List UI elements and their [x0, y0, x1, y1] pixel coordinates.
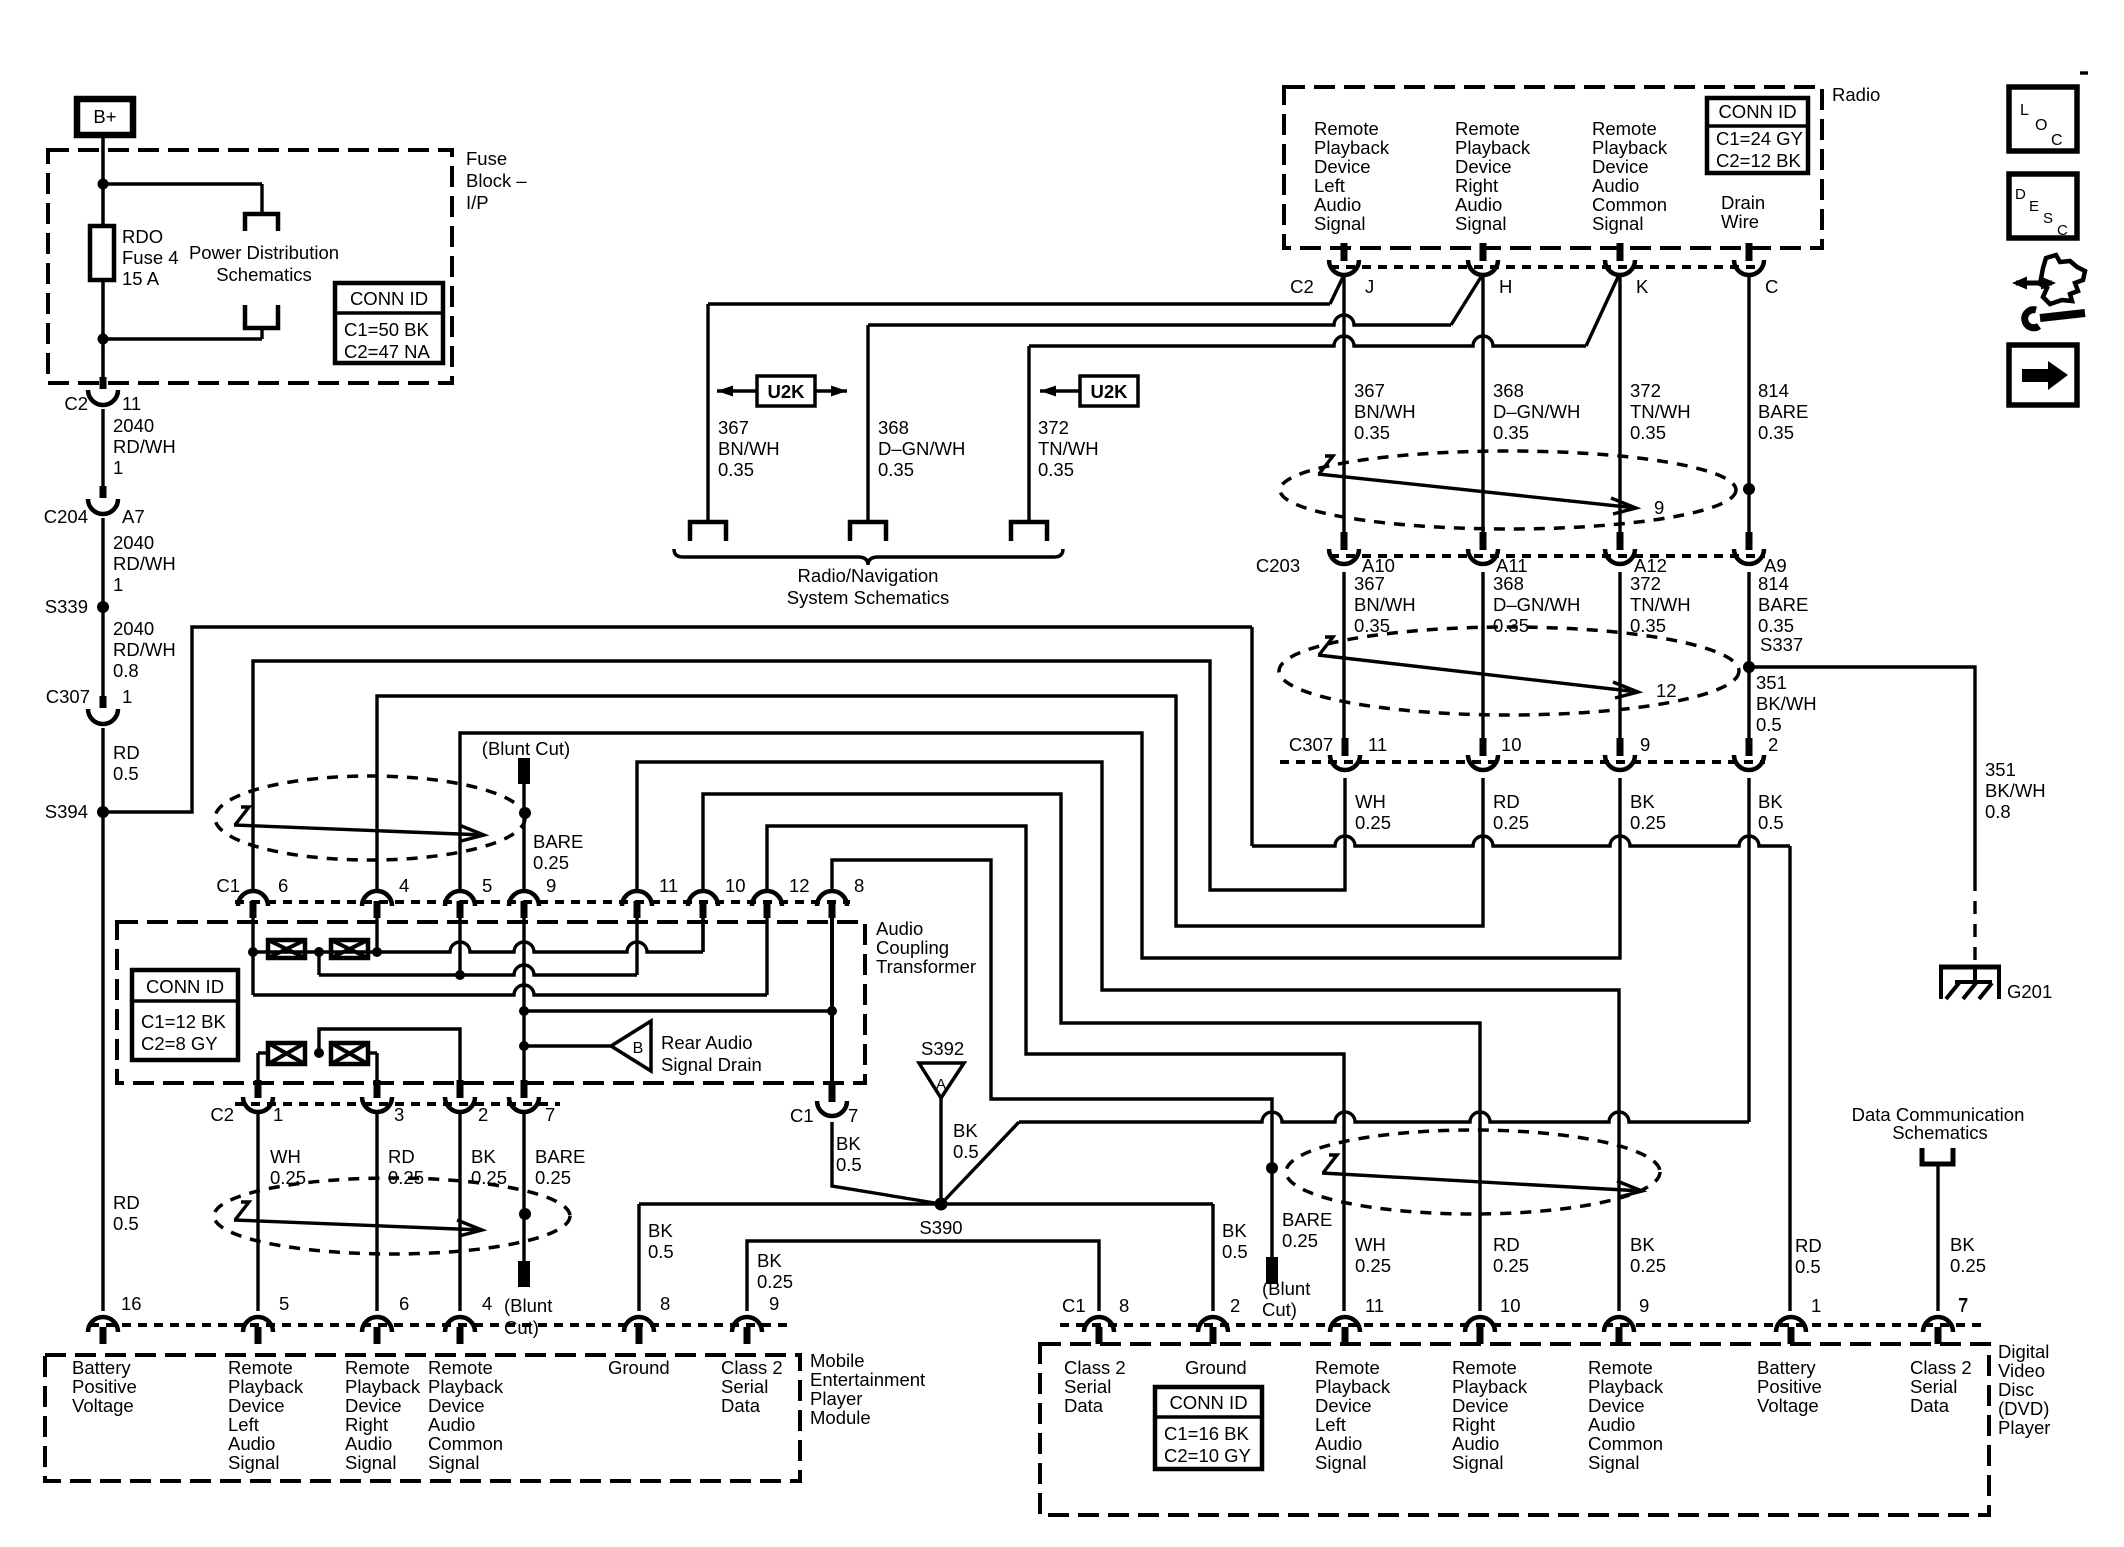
- svg-text:Positive: Positive: [1757, 1376, 1822, 1397]
- svg-text:Common: Common: [1592, 194, 1667, 215]
- svg-text:BARE: BARE: [533, 831, 583, 852]
- svg-text:Radio/Navigation: Radio/Navigation: [798, 565, 939, 586]
- svg-text:Cut): Cut): [504, 1317, 539, 1338]
- svg-text:0.5: 0.5: [1758, 812, 1784, 833]
- svg-text:Left: Left: [1315, 1414, 1346, 1435]
- svg-text:C2=47 NA: C2=47 NA: [344, 341, 431, 362]
- svg-text:0.25: 0.25: [535, 1167, 571, 1188]
- svg-text:Data: Data: [1064, 1395, 1104, 1416]
- svg-text:0.8: 0.8: [1985, 801, 2011, 822]
- svg-text:C2=12 BK: C2=12 BK: [1716, 150, 1802, 171]
- svg-text:0.5: 0.5: [1756, 714, 1782, 735]
- svg-text:BK: BK: [836, 1133, 861, 1154]
- svg-text:368: 368: [1493, 380, 1524, 401]
- svg-text:C1: C1: [790, 1105, 814, 1126]
- svg-text:Serial: Serial: [1064, 1376, 1111, 1397]
- svg-text:1: 1: [113, 457, 123, 478]
- svg-text:Signal: Signal: [1455, 213, 1506, 234]
- svg-text:0.25: 0.25: [1493, 1255, 1529, 1276]
- svg-text:C1=16 BK: C1=16 BK: [1164, 1423, 1250, 1444]
- svg-text:D–GN/WH: D–GN/WH: [1493, 594, 1580, 615]
- svg-text:C1=12 BK: C1=12 BK: [141, 1011, 227, 1032]
- svg-text:Signal: Signal: [345, 1452, 396, 1473]
- svg-text:1: 1: [273, 1104, 283, 1125]
- svg-text:C204: C204: [44, 506, 88, 527]
- svg-text:Serial: Serial: [721, 1376, 768, 1397]
- svg-text:2040: 2040: [113, 618, 154, 639]
- svg-text:RDO: RDO: [122, 226, 163, 247]
- svg-text:Right: Right: [1455, 175, 1498, 196]
- svg-text:WH: WH: [1355, 1234, 1386, 1255]
- svg-text:Audio: Audio: [1455, 194, 1502, 215]
- svg-text:BK: BK: [757, 1250, 782, 1271]
- svg-text:351: 351: [1985, 759, 2016, 780]
- svg-text:Playback: Playback: [1588, 1376, 1664, 1397]
- svg-text:Remote: Remote: [1314, 118, 1379, 139]
- svg-text:0.5: 0.5: [113, 763, 139, 784]
- svg-text:0.25: 0.25: [1493, 812, 1529, 833]
- svg-text:TN/WH: TN/WH: [1630, 401, 1691, 422]
- svg-text:8: 8: [1119, 1295, 1129, 1316]
- svg-text:Playback: Playback: [1315, 1376, 1391, 1397]
- svg-text:12: 12: [789, 875, 810, 896]
- svg-text:7: 7: [545, 1104, 555, 1125]
- svg-text:Playback: Playback: [1452, 1376, 1528, 1397]
- svg-text:0.35: 0.35: [1038, 459, 1074, 480]
- svg-text:2: 2: [1230, 1295, 1240, 1316]
- svg-text:Remote: Remote: [1315, 1357, 1380, 1378]
- svg-text:Player: Player: [810, 1388, 862, 1409]
- svg-text:Data: Data: [721, 1395, 761, 1416]
- svg-text:C2: C2: [210, 1104, 234, 1125]
- svg-text:Drain: Drain: [1721, 192, 1765, 213]
- svg-text:6: 6: [399, 1293, 409, 1314]
- svg-text:Remote: Remote: [345, 1357, 410, 1378]
- svg-text:7: 7: [1958, 1294, 1968, 1315]
- svg-text:Schematics: Schematics: [1892, 1122, 1988, 1143]
- svg-text:4: 4: [482, 1293, 492, 1314]
- svg-text:RD/WH: RD/WH: [113, 553, 176, 574]
- svg-text:BARE: BARE: [1282, 1209, 1332, 1230]
- svg-text:Cut): Cut): [1262, 1299, 1297, 1320]
- svg-text:(Blunt: (Blunt: [504, 1295, 552, 1316]
- svg-text:A: A: [936, 1076, 946, 1093]
- svg-text:0.5: 0.5: [953, 1141, 979, 1162]
- svg-text:15 A: 15 A: [122, 268, 160, 289]
- svg-text:L: L: [2020, 102, 2029, 119]
- svg-text:10: 10: [1500, 1295, 1521, 1316]
- svg-text:O: O: [2035, 117, 2047, 134]
- svg-text:0.25: 0.25: [1282, 1230, 1318, 1251]
- svg-text:BK/WH: BK/WH: [1985, 780, 2046, 801]
- svg-text:9: 9: [1639, 1295, 1649, 1316]
- svg-text:Entertainment: Entertainment: [810, 1369, 925, 1390]
- svg-text:CONN ID: CONN ID: [146, 976, 224, 997]
- svg-text:351: 351: [1756, 672, 1787, 693]
- svg-text:Device: Device: [1315, 1395, 1372, 1416]
- svg-text:Playback: Playback: [1314, 137, 1390, 158]
- svg-text:5: 5: [482, 875, 492, 896]
- svg-text:367: 367: [718, 417, 749, 438]
- svg-text:Audio: Audio: [228, 1433, 275, 1454]
- svg-text:Playback: Playback: [1592, 137, 1668, 158]
- svg-text:BK: BK: [953, 1120, 978, 1141]
- svg-text:TN/WH: TN/WH: [1630, 594, 1691, 615]
- svg-text:D: D: [2015, 186, 2026, 203]
- svg-text:D–GN/WH: D–GN/WH: [1493, 401, 1580, 422]
- svg-text:BN/WH: BN/WH: [1354, 401, 1416, 422]
- svg-text:D–GN/WH: D–GN/WH: [878, 438, 965, 459]
- svg-text:Device: Device: [1455, 156, 1512, 177]
- svg-text:Device: Device: [428, 1395, 485, 1416]
- svg-text:B: B: [633, 1040, 644, 1057]
- svg-text:368: 368: [1493, 573, 1524, 594]
- svg-text:0.5: 0.5: [836, 1154, 862, 1175]
- svg-text:0.35: 0.35: [1758, 615, 1794, 636]
- svg-text:S337: S337: [1760, 634, 1803, 655]
- svg-text:8: 8: [660, 1293, 670, 1314]
- svg-text:Positive: Positive: [72, 1376, 137, 1397]
- svg-text:C307: C307: [46, 686, 90, 707]
- svg-text:0.35: 0.35: [718, 459, 754, 480]
- svg-text:BN/WH: BN/WH: [1354, 594, 1416, 615]
- svg-text:BK/WH: BK/WH: [1756, 693, 1817, 714]
- svg-text:C1=24 GY: C1=24 GY: [1716, 128, 1803, 149]
- svg-text:C2=10 GY: C2=10 GY: [1164, 1445, 1251, 1466]
- svg-text:Ground: Ground: [1185, 1357, 1247, 1378]
- svg-text:Remote: Remote: [1588, 1357, 1653, 1378]
- svg-text:Playback: Playback: [345, 1376, 421, 1397]
- svg-text:WH: WH: [1355, 791, 1386, 812]
- svg-text:RD: RD: [1795, 1235, 1822, 1256]
- svg-text:Left: Left: [228, 1414, 259, 1435]
- svg-text:C: C: [2051, 132, 2063, 149]
- svg-text:S390: S390: [919, 1217, 962, 1238]
- svg-text:11: 11: [1368, 734, 1387, 755]
- svg-text:Audio: Audio: [1452, 1433, 1499, 1454]
- svg-text:E: E: [2029, 198, 2039, 215]
- svg-text:BK: BK: [1630, 1234, 1655, 1255]
- svg-text:BARE: BARE: [1758, 594, 1808, 615]
- svg-text:S: S: [2043, 210, 2053, 227]
- svg-text:10: 10: [1501, 734, 1522, 755]
- svg-text:9: 9: [1654, 497, 1664, 518]
- svg-text:Playback: Playback: [1455, 137, 1531, 158]
- svg-text:Data: Data: [1910, 1395, 1950, 1416]
- svg-text:Block –: Block –: [466, 170, 527, 191]
- svg-text:RD/WH: RD/WH: [113, 639, 176, 660]
- svg-text:S339: S339: [45, 596, 88, 617]
- svg-text:0.25: 0.25: [757, 1271, 793, 1292]
- svg-text:Wire: Wire: [1721, 211, 1759, 232]
- svg-text:Right: Right: [345, 1414, 388, 1435]
- svg-text:C: C: [2057, 222, 2068, 239]
- svg-text:10: 10: [725, 875, 746, 896]
- svg-text:Voltage: Voltage: [72, 1395, 134, 1416]
- svg-text:Audio: Audio: [428, 1414, 475, 1435]
- svg-text:0.25: 0.25: [1950, 1255, 1986, 1276]
- svg-text:Power Distribution: Power Distribution: [189, 242, 339, 263]
- svg-text:S394: S394: [45, 801, 88, 822]
- svg-text:H: H: [1499, 276, 1512, 297]
- svg-text:Signal: Signal: [428, 1452, 479, 1473]
- svg-text:0.35: 0.35: [1354, 422, 1390, 443]
- svg-text:814: 814: [1758, 380, 1789, 401]
- svg-text:C307: C307: [1289, 734, 1333, 755]
- svg-text:Audio: Audio: [1592, 175, 1639, 196]
- svg-text:BK: BK: [1630, 791, 1655, 812]
- svg-text:RD/WH: RD/WH: [113, 436, 176, 457]
- svg-text:0.25: 0.25: [1355, 1255, 1391, 1276]
- svg-text:BARE: BARE: [1758, 401, 1808, 422]
- svg-text:Audio: Audio: [1314, 194, 1361, 215]
- svg-text:Remote: Remote: [228, 1357, 293, 1378]
- svg-text:C203: C203: [1256, 555, 1300, 576]
- svg-text:Device: Device: [1588, 1395, 1645, 1416]
- svg-text:11: 11: [1365, 1295, 1384, 1316]
- svg-text:0.25: 0.25: [1630, 812, 1666, 833]
- svg-text:Battery: Battery: [1757, 1357, 1816, 1378]
- svg-text:0.25: 0.25: [1630, 1255, 1666, 1276]
- svg-text:Remote: Remote: [428, 1357, 493, 1378]
- svg-text:Right: Right: [1452, 1414, 1495, 1435]
- svg-text:C1: C1: [216, 875, 240, 896]
- svg-text:Mobile: Mobile: [810, 1350, 865, 1371]
- svg-text:Remote: Remote: [1452, 1357, 1517, 1378]
- svg-text:Left: Left: [1314, 175, 1345, 196]
- svg-text:3: 3: [394, 1104, 404, 1125]
- svg-text:Digital: Digital: [1998, 1341, 2049, 1362]
- svg-text:0.35: 0.35: [1758, 422, 1794, 443]
- svg-text:372: 372: [1630, 380, 1661, 401]
- svg-text:Module: Module: [810, 1407, 871, 1428]
- svg-text:Signal: Signal: [1315, 1452, 1366, 1473]
- svg-text:0.25: 0.25: [270, 1167, 306, 1188]
- svg-text:BK: BK: [648, 1220, 673, 1241]
- svg-text:Battery: Battery: [72, 1357, 131, 1378]
- svg-text:4: 4: [399, 875, 409, 896]
- svg-text:11: 11: [659, 875, 678, 896]
- svg-text:Schematics: Schematics: [216, 264, 312, 285]
- svg-text:BN/WH: BN/WH: [718, 438, 780, 459]
- svg-text:Playback: Playback: [228, 1376, 304, 1397]
- svg-text:U2K: U2K: [767, 381, 805, 402]
- svg-text:TN/WH: TN/WH: [1038, 438, 1099, 459]
- svg-text:RD: RD: [113, 1192, 140, 1213]
- svg-text:Audio: Audio: [876, 918, 923, 939]
- svg-text:1: 1: [122, 686, 132, 707]
- svg-text:CONN ID: CONN ID: [1718, 101, 1796, 122]
- svg-text:Disc: Disc: [1998, 1379, 2034, 1400]
- svg-text:0.25: 0.25: [1355, 812, 1391, 833]
- svg-text:Audio: Audio: [1588, 1414, 1635, 1435]
- svg-text:Player: Player: [1998, 1417, 2050, 1438]
- svg-text:5: 5: [279, 1293, 289, 1314]
- svg-text:I/P: I/P: [466, 192, 489, 213]
- svg-text:2: 2: [1768, 734, 1778, 755]
- svg-text:Class 2: Class 2: [1910, 1357, 1972, 1378]
- svg-text:0.5: 0.5: [1795, 1256, 1821, 1277]
- svg-text:1: 1: [113, 574, 123, 595]
- svg-text:12: 12: [1656, 680, 1677, 701]
- svg-text:Class 2: Class 2: [1064, 1357, 1126, 1378]
- svg-text:G201: G201: [2007, 981, 2052, 1002]
- svg-text:K: K: [1636, 276, 1649, 297]
- svg-text:S392: S392: [921, 1038, 964, 1059]
- svg-text:2040: 2040: [113, 532, 154, 553]
- svg-text:U2K: U2K: [1090, 381, 1128, 402]
- svg-text:RD: RD: [1493, 791, 1520, 812]
- svg-text:CONN ID: CONN ID: [350, 288, 428, 309]
- svg-text:RD: RD: [113, 742, 140, 763]
- svg-text:Transformer: Transformer: [876, 956, 976, 977]
- svg-text:Playback: Playback: [428, 1376, 504, 1397]
- svg-text:368: 368: [878, 417, 909, 438]
- svg-text:0.5: 0.5: [1222, 1241, 1248, 1262]
- svg-text:Device: Device: [228, 1395, 285, 1416]
- svg-text:Coupling: Coupling: [876, 937, 949, 958]
- svg-text:0.35: 0.35: [1630, 422, 1666, 443]
- svg-text:C2=8 GY: C2=8 GY: [141, 1033, 218, 1054]
- svg-text:6: 6: [278, 875, 288, 896]
- svg-text:372: 372: [1630, 573, 1661, 594]
- svg-text:Fuse 4: Fuse 4: [122, 247, 179, 268]
- svg-text:(Blunt Cut): (Blunt Cut): [482, 738, 570, 759]
- svg-text:814: 814: [1758, 573, 1789, 594]
- svg-text:0.35: 0.35: [1493, 422, 1529, 443]
- svg-text:0.25: 0.25: [533, 852, 569, 873]
- svg-text:2: 2: [478, 1104, 488, 1125]
- svg-text:367: 367: [1354, 573, 1385, 594]
- svg-text:Video: Video: [1998, 1360, 2045, 1381]
- svg-text:Device: Device: [1452, 1395, 1509, 1416]
- svg-text:C: C: [1765, 276, 1778, 297]
- svg-text:Rear Audio: Rear Audio: [661, 1032, 753, 1053]
- svg-text:Radio: Radio: [1832, 84, 1880, 105]
- svg-text:16: 16: [121, 1293, 142, 1314]
- svg-text:Audio: Audio: [1315, 1433, 1362, 1454]
- svg-text:(DVD): (DVD): [1998, 1398, 2049, 1419]
- svg-text:Audio: Audio: [345, 1433, 392, 1454]
- svg-text:Device: Device: [345, 1395, 402, 1416]
- svg-text:Class 2: Class 2: [721, 1357, 783, 1378]
- svg-text:Signal: Signal: [1588, 1452, 1639, 1473]
- svg-text:9: 9: [1640, 734, 1650, 755]
- svg-text:BK: BK: [471, 1146, 496, 1167]
- svg-text:BK: BK: [1758, 791, 1783, 812]
- svg-text:RD: RD: [388, 1146, 415, 1167]
- svg-text:J: J: [1365, 276, 1374, 297]
- svg-text:B+: B+: [93, 106, 116, 127]
- svg-text:Signal: Signal: [228, 1452, 279, 1473]
- svg-text:Signal: Signal: [1452, 1452, 1503, 1473]
- svg-text:0.35: 0.35: [1354, 615, 1390, 636]
- svg-text:Remote: Remote: [1455, 118, 1520, 139]
- svg-text:11: 11: [122, 393, 141, 414]
- svg-text:BK: BK: [1950, 1234, 1975, 1255]
- svg-text:C2: C2: [64, 393, 88, 414]
- svg-text:Signal Drain: Signal Drain: [661, 1054, 762, 1075]
- svg-text:Remote: Remote: [1592, 118, 1657, 139]
- svg-text:Device: Device: [1592, 156, 1649, 177]
- svg-text:C1: C1: [1062, 1295, 1086, 1316]
- svg-text:Signal: Signal: [1592, 213, 1643, 234]
- svg-text:0.35: 0.35: [878, 459, 914, 480]
- svg-text:Common: Common: [428, 1433, 503, 1454]
- svg-text:C1=50 BK: C1=50 BK: [344, 319, 430, 340]
- svg-text:0.8: 0.8: [113, 660, 139, 681]
- svg-text:BARE: BARE: [535, 1146, 585, 1167]
- svg-text:Common: Common: [1588, 1433, 1663, 1454]
- svg-text:RD: RD: [1493, 1234, 1520, 1255]
- svg-text:1: 1: [1811, 1295, 1821, 1316]
- svg-text:0.5: 0.5: [648, 1241, 674, 1262]
- svg-text:System Schematics: System Schematics: [787, 587, 949, 608]
- svg-text:Ground: Ground: [608, 1357, 670, 1378]
- svg-text:(Blunt: (Blunt: [1262, 1278, 1310, 1299]
- svg-text:Voltage: Voltage: [1757, 1395, 1819, 1416]
- svg-text:9: 9: [546, 875, 556, 896]
- svg-text:A7: A7: [122, 506, 145, 527]
- svg-text:0.5: 0.5: [113, 1213, 139, 1234]
- svg-text:Signal: Signal: [1314, 213, 1365, 234]
- svg-text:372: 372: [1038, 417, 1069, 438]
- svg-text:9: 9: [769, 1293, 779, 1314]
- svg-text:367: 367: [1354, 380, 1385, 401]
- svg-text:Device: Device: [1314, 156, 1371, 177]
- svg-text:C2: C2: [1290, 276, 1314, 297]
- svg-text:CONN ID: CONN ID: [1169, 1392, 1247, 1413]
- svg-text:WH: WH: [270, 1146, 301, 1167]
- svg-text:8: 8: [854, 875, 864, 896]
- svg-text:Serial: Serial: [1910, 1376, 1957, 1397]
- svg-text:7: 7: [848, 1105, 858, 1126]
- svg-text:BK: BK: [1222, 1220, 1247, 1241]
- svg-text:Fuse: Fuse: [466, 148, 507, 169]
- svg-text:2040: 2040: [113, 415, 154, 436]
